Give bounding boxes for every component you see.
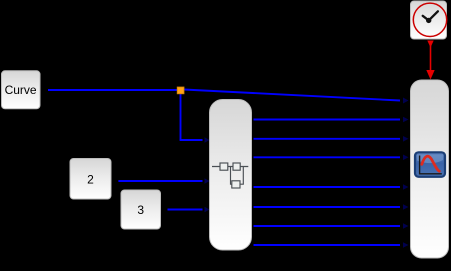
block: constant 2 [70,159,111,200]
wire: middle out 1 [254,119,401,121]
arrowhead out6 [403,223,409,229]
scope icon [415,152,445,177]
wire: middle out 2 [254,138,401,140]
arrowhead out5 [403,204,409,210]
svg-text:3: 3 [137,203,144,217]
wire: into middle block input 1 [180,139,203,141]
arrowhead out3 [403,155,409,161]
wire: middle out 7 [254,244,401,246]
top arrowhead [427,41,433,48]
wire: junction down [180,93,182,140]
wire: Curve output to junction [48,89,178,91]
block: clock / check (top right) [411,1,447,39]
block: constant 3 [121,190,161,229]
subsystem icon [212,163,248,188]
arrowhead out2 [403,136,409,142]
arrowhead into middle block input 1 [205,137,210,143]
block: Curve source [2,71,41,109]
wire: block 3 output [168,209,203,211]
wire: block 2 output [118,180,202,182]
arrowhead into middle block input 2 [205,178,210,184]
svg-text:Curve: Curve [5,83,37,97]
arrowhead out4 [403,184,409,190]
red link arrow from clock to scope block [426,41,434,80]
block: right scope (tall) [411,80,449,258]
arrowhead into right block port 1 [403,98,409,104]
bottom arrowhead [426,70,434,80]
wire: middle out 5 [254,206,401,208]
arrowhead into middle block input 3 [205,207,210,213]
wire: diagonal from junction to right block port 1 [184,90,400,101]
svg-text:2: 2 [87,173,94,187]
junction marker (orange) [177,87,184,94]
arrowhead out1 [403,117,409,123]
block: middle subsystem (tall) [210,100,252,251]
clock hands [426,18,431,23]
red circle [413,3,446,36]
wire: middle out 3 [254,156,401,158]
wire: middle out 4 [254,186,401,188]
arrowhead out7 [403,242,409,248]
wire: middle out 6 [254,225,401,227]
